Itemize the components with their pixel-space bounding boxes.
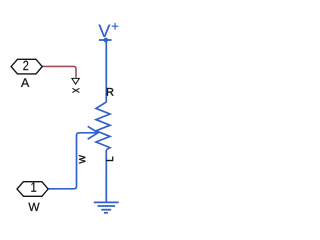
x marker — [72, 88, 79, 92]
port 1 number — [31, 183, 36, 192]
wire W (port 1 to wiper) — [48, 133, 97, 189]
V+ node dot — [104, 38, 109, 43]
port 2 number — [23, 61, 28, 70]
port 2 hexagon — [11, 59, 42, 74]
resistor R zigzag — [96, 102, 110, 150]
wire bottom (resistor to ground) — [105, 150, 107, 202]
V+ label — [98, 25, 110, 37]
label W — [28, 203, 39, 211]
wire A (red, from port 2 to open end) — [42, 66, 76, 77]
label A — [21, 78, 29, 87]
port 1 hexagon — [17, 182, 48, 197]
label L (rotated) — [106, 157, 113, 161]
wiper arrow head — [88, 126, 98, 139]
ground — [94, 202, 119, 212]
label W rotated — [79, 155, 85, 163]
V+ terminal tick — [99, 39, 112, 41]
open arrow unconnected marker — [72, 78, 79, 84]
wire top (V+ to resistor) — [105, 40, 107, 102]
label R (rotated) — [107, 88, 114, 96]
